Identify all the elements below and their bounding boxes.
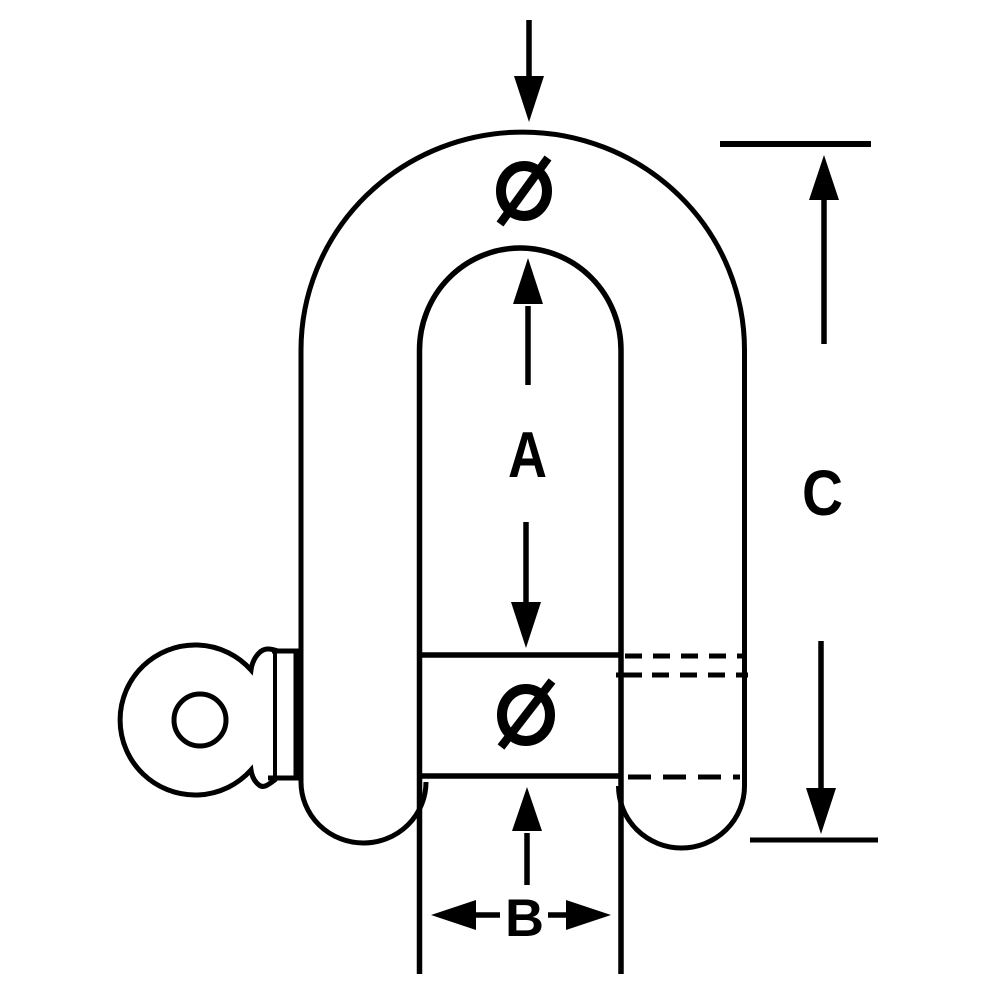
svg-text:C: C (802, 457, 843, 529)
svg-text:B: B (505, 889, 544, 948)
svg-text:A: A (508, 418, 547, 491)
